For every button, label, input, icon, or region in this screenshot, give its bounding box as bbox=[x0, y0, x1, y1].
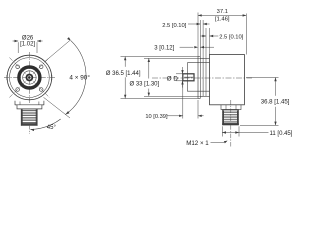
svg-text:Ø D: Ø D bbox=[167, 76, 179, 83]
svg-text:Ø26: Ø26 bbox=[22, 35, 34, 41]
svg-text:3 [0.12]: 3 [0.12] bbox=[154, 46, 174, 52]
svg-text:Ø 33 [1.30]: Ø 33 [1.30] bbox=[130, 82, 160, 88]
svg-text:M12 × 1: M12 × 1 bbox=[186, 140, 209, 147]
svg-text:4 × 90°: 4 × 90° bbox=[69, 73, 90, 81]
svg-text:10 [0.39]: 10 [0.39] bbox=[145, 114, 168, 120]
svg-text:36.8 [1.45]: 36.8 [1.45] bbox=[261, 99, 290, 106]
svg-text:[1.46]: [1.46] bbox=[215, 17, 230, 23]
svg-text:11 [0.45]: 11 [0.45] bbox=[270, 131, 293, 137]
svg-text:Ø 36.5 [1.44]: Ø 36.5 [1.44] bbox=[106, 71, 141, 77]
svg-text:2.5 [0.10]: 2.5 [0.10] bbox=[162, 23, 187, 29]
svg-text:2.5 [0.10]: 2.5 [0.10] bbox=[219, 35, 244, 41]
svg-text:45°: 45° bbox=[47, 125, 57, 131]
svg-text:[1.02]: [1.02] bbox=[20, 42, 35, 48]
svg-text:37.1: 37.1 bbox=[217, 9, 228, 15]
